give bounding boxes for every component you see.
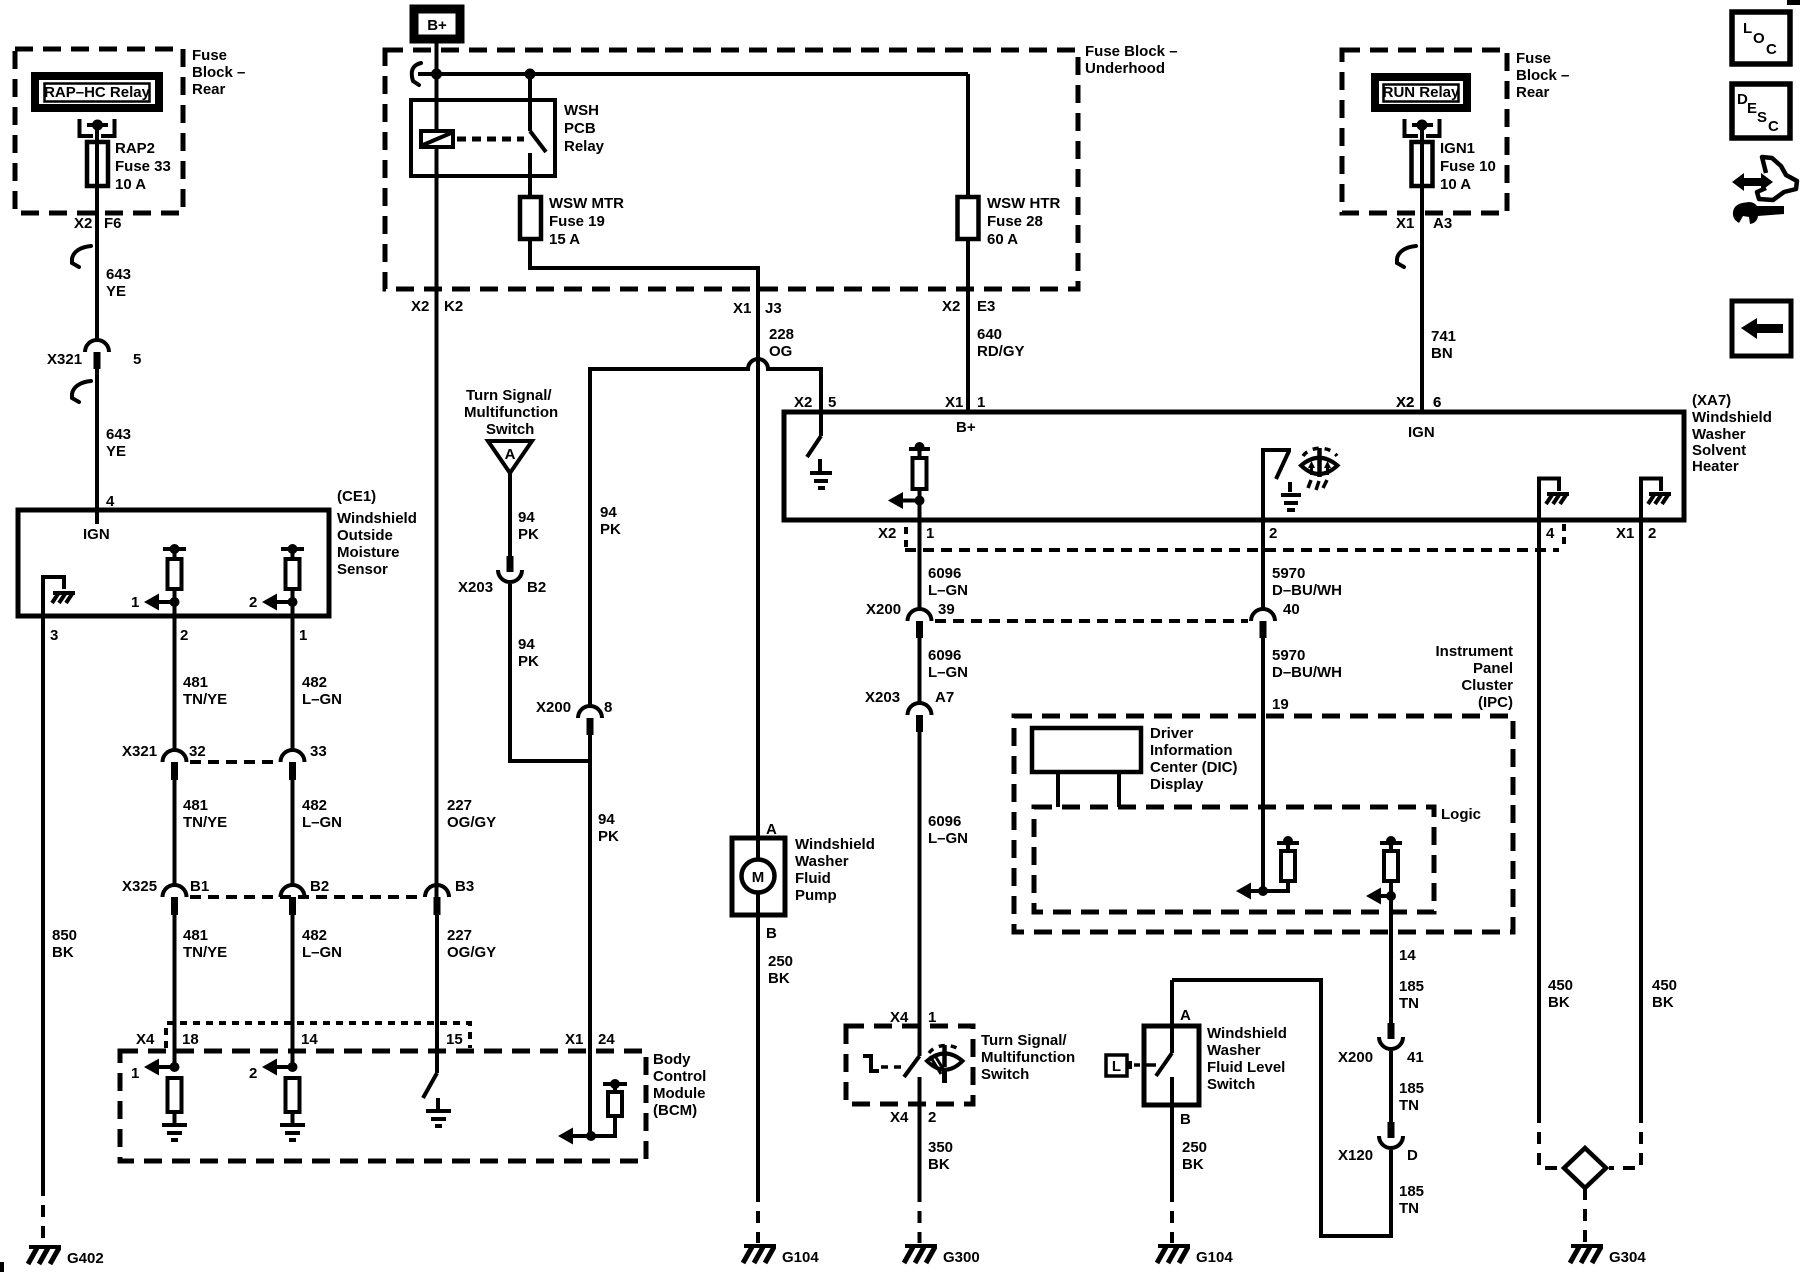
svg-text:32: 32	[189, 743, 206, 760]
svg-text:Information: Information	[1150, 742, 1233, 759]
svg-text:S: S	[1757, 109, 1767, 126]
svg-text:L–GN: L–GN	[302, 691, 342, 708]
svg-text:Multifunction: Multifunction	[464, 404, 558, 421]
svg-text:Body: Body	[653, 1051, 691, 1068]
svg-text:B: B	[1180, 1111, 1191, 1128]
wire 741 BN fuse to heater	[1420, 197, 1424, 412]
X321 row labels	[122, 743, 327, 760]
svg-text:IGN1: IGN1	[1440, 140, 1475, 157]
wire 185 TN X120 to level switch loop	[1172, 980, 1391, 1236]
svg-text:6096: 6096	[928, 647, 961, 664]
svg-text:33: 33	[310, 743, 327, 760]
relay terminal clip	[80, 119, 115, 136]
svg-text:Windshield: Windshield	[1207, 1025, 1287, 1042]
sensor element pin 1 (resistor with arrow 2)	[249, 544, 304, 616]
svg-text:Module: Module	[653, 1085, 706, 1102]
svg-text:X2: X2	[942, 298, 960, 315]
svg-text:BK: BK	[52, 944, 74, 961]
svg-text:Washer: Washer	[1207, 1042, 1261, 1059]
BCM pin 14 pull-up resistor to ground	[249, 1059, 305, 1141]
wire 481 TN/YE X321 to X325	[173, 780, 177, 885]
svg-text:94: 94	[518, 509, 535, 526]
BCM connector labels	[136, 1031, 615, 1048]
BCM dashed box	[120, 1051, 646, 1161]
svg-text:40: 40	[1283, 601, 1300, 618]
svg-text:(XA7): (XA7)	[1692, 392, 1731, 409]
sensor element pin 2 (resistor with arrow 1)	[131, 544, 186, 616]
svg-text:Sensor: Sensor	[337, 561, 388, 578]
svg-text:L: L	[1112, 1058, 1121, 1075]
connector X325 B2	[281, 885, 305, 915]
wire 185 TN IPC to X200 41	[1389, 932, 1393, 1023]
windshield washer fluid level switch box	[1144, 1025, 1287, 1105]
diagnostic wrench icon	[1732, 157, 1797, 224]
svg-text:4: 4	[1546, 525, 1555, 542]
svg-text:X325: X325	[122, 878, 157, 895]
svg-text:Moisture: Moisture	[337, 544, 400, 561]
svg-text:6096: 6096	[928, 813, 961, 830]
svg-text:(CE1): (CE1)	[337, 488, 376, 505]
svg-text:X200: X200	[866, 601, 901, 618]
svg-text:94: 94	[600, 504, 617, 521]
wire 250 BK pump to G104	[758, 915, 793, 1243]
svg-text:B+: B+	[956, 419, 976, 436]
heater pin 2 switch to ground	[1263, 450, 1301, 520]
svg-text:X1: X1	[1616, 525, 1634, 542]
wire 643 YE fuse to X321	[95, 197, 99, 340]
svg-text:Fluid Level: Fluid Level	[1207, 1059, 1285, 1076]
svg-text:L–GN: L–GN	[928, 664, 968, 681]
fuse IGN1 Fuse 10 10A	[1412, 140, 1496, 193]
svg-text:OG/GY: OG/GY	[447, 944, 496, 961]
svg-text:Control: Control	[653, 1068, 706, 1085]
splice diamond	[1564, 1148, 1606, 1188]
svg-text:BK: BK	[1548, 994, 1570, 1011]
svg-text:Logic: Logic	[1441, 806, 1481, 823]
svg-text:E3: E3	[977, 298, 995, 315]
svg-text:Washer: Washer	[1692, 426, 1746, 443]
svg-text:RAP2: RAP2	[115, 140, 155, 157]
heater top pin labels	[794, 394, 1441, 411]
RAP-HC Relay label box	[35, 76, 159, 108]
svg-text:PK: PK	[518, 653, 539, 670]
svg-text:Fluid: Fluid	[795, 870, 831, 887]
wire 94 PK bus to heater X2 5 (with hop over 228 OG)	[590, 359, 821, 706]
svg-text:Switch: Switch	[486, 421, 534, 438]
X321 dashed connector line	[190, 760, 277, 764]
fuse block rear (right) dashed box	[1342, 50, 1507, 213]
svg-text:Fuse Block –: Fuse Block –	[1085, 43, 1178, 60]
relay linkage dashed	[457, 137, 524, 142]
wire 227 OG/GY X325 to BCM	[435, 915, 439, 1073]
moisture sensor box CE1	[18, 510, 329, 616]
svg-text:Fuse 19: Fuse 19	[549, 213, 605, 230]
svg-text:Instrument: Instrument	[1435, 643, 1513, 660]
svg-text:Solvent: Solvent	[1692, 442, 1746, 459]
svg-text:250: 250	[768, 953, 793, 970]
connector labels X2 E3	[942, 298, 995, 315]
svg-text:14: 14	[301, 1031, 318, 1048]
svg-text:4: 4	[106, 493, 115, 510]
svg-text:X2: X2	[878, 525, 896, 542]
wire clip to fuse RAP2	[95, 125, 99, 197]
svg-text:2: 2	[249, 1065, 257, 1082]
connector X200 39	[866, 601, 955, 638]
connector X321 5	[47, 340, 141, 369]
svg-text:1: 1	[131, 1065, 139, 1082]
RUN Relay label box	[1375, 77, 1467, 108]
svg-text:481: 481	[183, 927, 208, 944]
svg-text:L–GN: L–GN	[302, 944, 342, 961]
heater pin5 switch to ground	[807, 412, 832, 488]
svg-text:Outside: Outside	[337, 527, 393, 544]
B+ terminal box	[414, 9, 460, 39]
svg-text:F6: F6	[104, 215, 122, 232]
wire 450 BK from heater pin X1 2	[1609, 520, 1677, 1168]
svg-text:M: M	[752, 869, 765, 886]
svg-text:X4: X4	[136, 1031, 155, 1048]
svg-text:K2: K2	[444, 298, 463, 315]
svg-text:Switch: Switch	[981, 1066, 1029, 1083]
svg-text:G104: G104	[1196, 1249, 1233, 1266]
svg-text:OG: OG	[769, 343, 792, 360]
svg-text:L–GN: L–GN	[928, 582, 968, 599]
ground G104 left	[743, 1246, 819, 1266]
ground G304	[1570, 1246, 1646, 1266]
svg-text:D: D	[1407, 1147, 1418, 1164]
svg-text:X200: X200	[1338, 1049, 1373, 1066]
svg-text:B2: B2	[310, 878, 329, 895]
svg-text:185: 185	[1399, 978, 1424, 995]
svg-text:PK: PK	[600, 521, 621, 538]
connector labels X2 6	[1396, 394, 1441, 411]
svg-text:Windshield: Windshield	[795, 836, 875, 853]
wire label 228 OG	[769, 326, 794, 360]
svg-text:Panel: Panel	[1473, 660, 1513, 677]
svg-text:850: 850	[52, 927, 77, 944]
svg-text:X120: X120	[1338, 1147, 1373, 1164]
svg-text:Fuse 28: Fuse 28	[987, 213, 1043, 230]
relay switch	[530, 74, 546, 197]
svg-text:10 A: 10 A	[1440, 176, 1471, 193]
wire 6096 L-GN heater to X200 39	[918, 520, 922, 609]
svg-text:TN/YE: TN/YE	[183, 814, 227, 831]
svg-text:D–BU/WH: D–BU/WH	[1272, 582, 1342, 599]
connector labels X2 K2	[411, 298, 463, 315]
svg-text:PK: PK	[598, 828, 619, 845]
svg-text:X1: X1	[733, 300, 751, 317]
back arrow icon box	[1732, 301, 1791, 356]
svg-text:185: 185	[1399, 1080, 1424, 1097]
wire label 640 RD/GY	[977, 326, 1025, 360]
BCM pin 18 pull-up resistor to ground	[131, 1059, 187, 1141]
svg-text:X4: X4	[890, 1109, 909, 1126]
wire 185 TN X200 to X120 D	[1389, 1051, 1393, 1122]
svg-text:Turn Signal/: Turn Signal/	[981, 1032, 1067, 1049]
heater X2 connector dashed line	[905, 548, 1559, 552]
svg-text:WSW MTR: WSW MTR	[549, 195, 624, 212]
connector X203 A7	[865, 689, 954, 732]
svg-text:RUN Relay: RUN Relay	[1383, 84, 1460, 101]
svg-text:643: 643	[106, 426, 131, 443]
washer spray icon	[927, 1045, 963, 1083]
svg-text:RAP–HC Relay: RAP–HC Relay	[44, 84, 151, 101]
hook at bus left end	[412, 63, 421, 85]
wire 5970 D-BU/WH X200 to IPC	[1261, 638, 1265, 891]
svg-text:Block –: Block –	[192, 64, 245, 81]
svg-text:60 A: 60 A	[987, 231, 1018, 248]
pin 4 stub inside sensor	[95, 510, 99, 524]
svg-text:X2: X2	[74, 215, 92, 232]
connector X200 41	[1338, 1023, 1424, 1066]
svg-text:IGN: IGN	[83, 526, 110, 543]
svg-text:C: C	[1766, 41, 1777, 58]
wire 482 L-GN X325 to BCM	[291, 915, 295, 1067]
svg-text:X1: X1	[945, 394, 963, 411]
hook at X2 F6	[72, 246, 91, 267]
svg-text:2: 2	[928, 1109, 936, 1126]
wire 450 BK from heater pin 4	[1539, 520, 1573, 1168]
svg-text:OG/GY: OG/GY	[447, 814, 496, 831]
svg-text:227: 227	[447, 927, 472, 944]
svg-text:B3: B3	[455, 878, 474, 895]
turn signal multifunction switch triangle A	[464, 387, 558, 473]
svg-text:L: L	[1743, 20, 1752, 37]
hook at X1 A3	[1397, 246, 1416, 267]
wire 228 OG to pump	[756, 289, 760, 838]
svg-text:L–GN: L–GN	[302, 814, 342, 831]
svg-text:Block –: Block –	[1516, 67, 1569, 84]
heater pin X1 2 chassis ground	[1641, 479, 1671, 521]
svg-text:BN: BN	[1431, 345, 1453, 362]
X200 dashed connector line	[935, 619, 1248, 623]
svg-text:227: 227	[447, 797, 472, 814]
svg-text:B2: B2	[527, 579, 546, 596]
svg-text:Fuse: Fuse	[192, 47, 227, 64]
svg-text:228: 228	[769, 326, 794, 343]
wire 350 BK to G300	[920, 1104, 954, 1243]
svg-text:O: O	[1753, 30, 1765, 47]
svg-text:5970: 5970	[1272, 647, 1305, 664]
svg-text:643: 643	[106, 266, 131, 283]
svg-text:Windshield: Windshield	[1692, 409, 1772, 426]
svg-text:39: 39	[938, 601, 955, 618]
svg-text:X1: X1	[565, 1031, 583, 1048]
relay WSH PCB box	[411, 100, 555, 176]
fuse RAP2 Fuse 33 10A	[87, 140, 171, 193]
svg-text:Heater: Heater	[1692, 458, 1739, 475]
svg-text:Pump: Pump	[795, 887, 837, 904]
svg-text:15 A: 15 A	[549, 231, 580, 248]
svg-text:(BCM): (BCM)	[653, 1102, 697, 1119]
svg-text:Driver: Driver	[1150, 725, 1194, 742]
svg-text:C: C	[1768, 118, 1779, 135]
wire 850 BK	[41, 616, 45, 1184]
BCM X4 dotted connector line	[166, 1023, 470, 1048]
connector X200 40	[1251, 601, 1300, 638]
svg-text:YE: YE	[106, 443, 126, 460]
wire 481 TN/YE X325 to BCM	[173, 915, 177, 1067]
svg-text:B+: B+	[427, 17, 447, 34]
svg-text:Center (DIC): Center (DIC)	[1150, 759, 1238, 776]
wire 6096 L-GN X200 to X203 A7	[918, 638, 922, 703]
svg-text:Underhood: Underhood	[1085, 60, 1165, 77]
sensor pin labels below box	[50, 627, 307, 644]
svg-text:1: 1	[299, 627, 307, 644]
svg-text:450: 450	[1548, 977, 1573, 994]
svg-text:94: 94	[598, 811, 615, 828]
svg-text:2: 2	[1269, 525, 1277, 542]
wire label 643 YE	[106, 426, 131, 460]
svg-text:J3: J3	[765, 300, 782, 317]
svg-text:2: 2	[1648, 525, 1656, 542]
svg-text:TN: TN	[1399, 995, 1419, 1012]
svg-text:450: 450	[1652, 977, 1677, 994]
svg-text:5: 5	[828, 394, 836, 411]
ground G104 right	[1157, 1246, 1233, 1266]
svg-text:X1: X1	[1396, 215, 1414, 232]
connector X203 B2	[458, 556, 546, 596]
svg-text:G304: G304	[1609, 1249, 1646, 1266]
svg-text:BK: BK	[768, 970, 790, 987]
ground G402	[28, 1247, 104, 1267]
windshield washer fluid pump	[732, 836, 875, 915]
connector X325 B1	[163, 885, 187, 915]
dashed wire splice to G304	[1583, 1188, 1587, 1242]
corner artifact top-right	[1787, 0, 1800, 5]
wire pin A	[1170, 980, 1174, 1053]
heated washer nozzle icon	[1301, 448, 1338, 490]
svg-text:482: 482	[302, 797, 327, 814]
svg-text:350: 350	[928, 1139, 953, 1156]
svg-text:2: 2	[180, 627, 188, 644]
svg-text:Switch: Switch	[1207, 1076, 1255, 1093]
svg-text:G402: G402	[67, 1250, 104, 1267]
wire 482 L-GN X321 to X325	[291, 780, 295, 885]
svg-text:B: B	[766, 925, 777, 942]
svg-text:94: 94	[518, 636, 535, 653]
svg-text:1: 1	[131, 594, 139, 611]
X4 1 labels	[890, 1009, 936, 1026]
svg-text:Fuse: Fuse	[1516, 50, 1551, 67]
svg-text:Display: Display	[1150, 776, 1204, 793]
svg-text:19: 19	[1272, 696, 1289, 713]
LOC icon box	[1732, 12, 1790, 64]
wire 250 BK level switch to G104	[1172, 1105, 1207, 1243]
wire label 741 BN	[1431, 328, 1456, 362]
wire label 643 YE	[106, 266, 131, 300]
fluid level indicator L icon	[1106, 1055, 1156, 1076]
svg-text:TN: TN	[1399, 1200, 1419, 1217]
svg-text:YE: YE	[106, 283, 126, 300]
logic resistor 2	[1366, 836, 1402, 932]
connector X120 D	[1338, 1122, 1418, 1164]
heater box XA7	[784, 412, 1684, 520]
B+ and IGN bus labels inside heater	[956, 419, 1435, 441]
svg-text:15: 15	[446, 1031, 463, 1048]
svg-text:A3: A3	[1433, 215, 1452, 232]
svg-text:X321: X321	[122, 743, 157, 760]
connector X325 B3	[425, 885, 449, 915]
svg-text:WSH: WSH	[564, 102, 599, 119]
svg-text:1: 1	[928, 1009, 936, 1026]
svg-text:8: 8	[604, 699, 612, 716]
ground G300	[904, 1246, 980, 1266]
turn signal switch dashed box	[846, 1026, 973, 1104]
svg-text:41: 41	[1407, 1049, 1424, 1066]
svg-text:Turn Signal/: Turn Signal/	[466, 387, 552, 404]
X325 row labels	[122, 878, 474, 895]
wire clip to fuse IGN1	[1420, 125, 1424, 197]
svg-text:24: 24	[598, 1031, 615, 1048]
svg-text:6: 6	[1433, 394, 1441, 411]
svg-text:TN: TN	[1399, 1097, 1419, 1114]
heater element resistor pin X2 1	[888, 442, 930, 520]
wire 643 YE X321 to sensor	[95, 369, 99, 510]
svg-text:18: 18	[182, 1031, 199, 1048]
svg-text:482: 482	[302, 674, 327, 691]
svg-text:481: 481	[183, 674, 208, 691]
relay terminal clip	[1405, 119, 1440, 136]
svg-text:5: 5	[133, 351, 141, 368]
corner artifact bottom-left	[0, 1262, 4, 1272]
svg-text:A7: A7	[935, 689, 954, 706]
svg-text:TN/YE: TN/YE	[183, 944, 227, 961]
svg-text:E: E	[1747, 100, 1757, 117]
wire 640 RD/GY to heater X1 1	[966, 289, 970, 412]
sensor internal ground pin 3	[43, 577, 75, 616]
wire 94 PK triangle to X203	[508, 473, 512, 556]
washer switch blade	[863, 1056, 920, 1104]
X325 dashed connector line	[190, 895, 421, 899]
svg-text:Cluster: Cluster	[1461, 677, 1513, 694]
svg-text:1: 1	[926, 525, 934, 542]
svg-text:185: 185	[1399, 1183, 1424, 1200]
svg-text:D–BU/WH: D–BU/WH	[1272, 664, 1342, 681]
wire fuse19 to X1 J3	[530, 239, 758, 289]
fuse WSW MTR Fuse 19 15A	[520, 195, 624, 248]
connector X321 33	[281, 750, 305, 780]
fuse WSW HTR Fuse 28 60A	[958, 74, 1061, 289]
svg-text:BK: BK	[1182, 1156, 1204, 1173]
wire B+ down through relay coil	[435, 43, 439, 289]
svg-text:BK: BK	[1652, 994, 1674, 1011]
svg-text:X200: X200	[536, 699, 571, 716]
wire 227 OG/GY relay to X325 B3	[435, 289, 439, 897]
svg-text:Fuse 33: Fuse 33	[115, 158, 171, 175]
svg-text:640: 640	[977, 326, 1002, 343]
svg-text:250: 250	[1182, 1139, 1207, 1156]
heater bottom pin labels	[878, 524, 1656, 549]
fuse block rear (left) dashed box	[15, 49, 183, 213]
svg-text:6096: 6096	[928, 565, 961, 582]
wire 94 PK X200 8 to BCM X1 24	[588, 735, 592, 1136]
svg-text:A: A	[505, 446, 516, 463]
BCM pin X1 24 sensing resistor	[558, 1079, 627, 1145]
BCM pin 15 switch to ground	[423, 1073, 451, 1126]
connector labels X1 A3	[1396, 215, 1452, 232]
svg-text:Multifunction: Multifunction	[981, 1049, 1075, 1066]
svg-text:TN/YE: TN/YE	[183, 691, 227, 708]
wire 482 L-GN sensor to X321	[291, 616, 295, 750]
svg-text:PK: PK	[518, 526, 539, 543]
svg-text:A: A	[1180, 1007, 1191, 1024]
svg-text:10 A: 10 A	[115, 176, 146, 193]
instrument panel cluster dashed box	[1014, 716, 1513, 932]
wire 481 TN/YE sensor to X321	[173, 616, 177, 750]
svg-text:5970: 5970	[1272, 565, 1305, 582]
connector X200 8	[536, 699, 612, 735]
